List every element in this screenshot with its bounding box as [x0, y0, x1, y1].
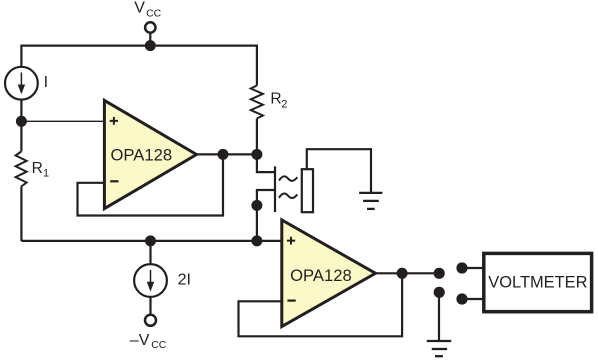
resistor R2 [251, 86, 263, 119]
wire node A to op-amp U1 + input [21, 120, 104, 122]
svg-text:VOLTMETER: VOLTMETER [488, 273, 587, 292]
wire Vcc terminal stub [149, 34, 151, 47]
crystal body [302, 169, 313, 212]
wire op-amp U1 output [197, 153, 257, 155]
junction node bottom rail / transistor branch [251, 235, 262, 246]
wire U1 feedback loop [78, 154, 224, 215]
wire top rail Vcc from current source I to R2 [21, 46, 257, 86]
wire voltmeter plug stub high [462, 267, 484, 269]
svg-text:2I: 2I [178, 272, 191, 289]
ground below voltmeter terminals [427, 341, 451, 356]
op-amp U2 OPA128 [282, 220, 376, 327]
voltmeter box [484, 253, 592, 311]
junction node U1 output / R2 [251, 149, 262, 160]
wire 2I source bottom stub to -Vcc terminal [149, 297, 151, 315]
svg-text:–V: –V [130, 332, 150, 349]
svg-text:R: R [270, 90, 281, 107]
svg-text:OPA128: OPA128 [290, 267, 352, 285]
wire R1 bottom to bottom rail [20, 187, 22, 241]
node output low terminal [434, 287, 445, 298]
junction node U2 output / feedback [397, 268, 408, 279]
wire crystal top to ground [307, 149, 371, 193]
svg-text:1: 1 [43, 168, 49, 180]
wire voltmeter low terminal to ground [438, 292, 440, 341]
wire current source I to node A [20, 100, 22, 152]
current source 2I [134, 264, 167, 297]
wire voltmeter plug stub low [462, 298, 484, 300]
node output high terminal [434, 268, 445, 279]
junction node bottom rail / 2I [145, 235, 156, 246]
svg-text:V: V [134, 0, 145, 16]
svg-text:CC: CC [146, 7, 162, 19]
svg-text:I: I [44, 74, 48, 91]
junction node Vcc rail [145, 40, 156, 51]
wire op-amp U2 output [376, 272, 439, 274]
insulation squiggle lower [279, 194, 297, 198]
resistor R1 [16, 152, 27, 187]
junction node U1 output / feedback [218, 149, 229, 160]
current source I [5, 67, 38, 100]
wire 2I source top stub [149, 241, 151, 264]
junction node A (I source / R1 / U1 +) [16, 116, 27, 127]
terminal Vcc [145, 22, 155, 32]
svg-text:CC: CC [151, 339, 167, 351]
wire U2 feedback loop [239, 273, 403, 336]
svg-text:R: R [32, 160, 43, 177]
node voltmeter plug low [456, 293, 467, 304]
wire bottom rail to op-amp U2 + input [21, 240, 281, 242]
node voltmeter plug high [456, 262, 467, 273]
transistor gate bar [274, 166, 276, 212]
ground right of crystal [359, 193, 382, 209]
wire R2 bottom to transistor upper terminal [257, 119, 274, 173]
junction node transistor lower / bottom rail branch [251, 200, 262, 211]
terminal -Vcc [145, 315, 156, 326]
insulation squiggle upper [279, 176, 297, 180]
svg-text:2: 2 [281, 99, 287, 111]
svg-text:OPA128: OPA128 [111, 147, 173, 165]
op-amp U1 OPA128 [104, 100, 196, 208]
wire transistor lower terminal to bottom rail [257, 190, 274, 241]
